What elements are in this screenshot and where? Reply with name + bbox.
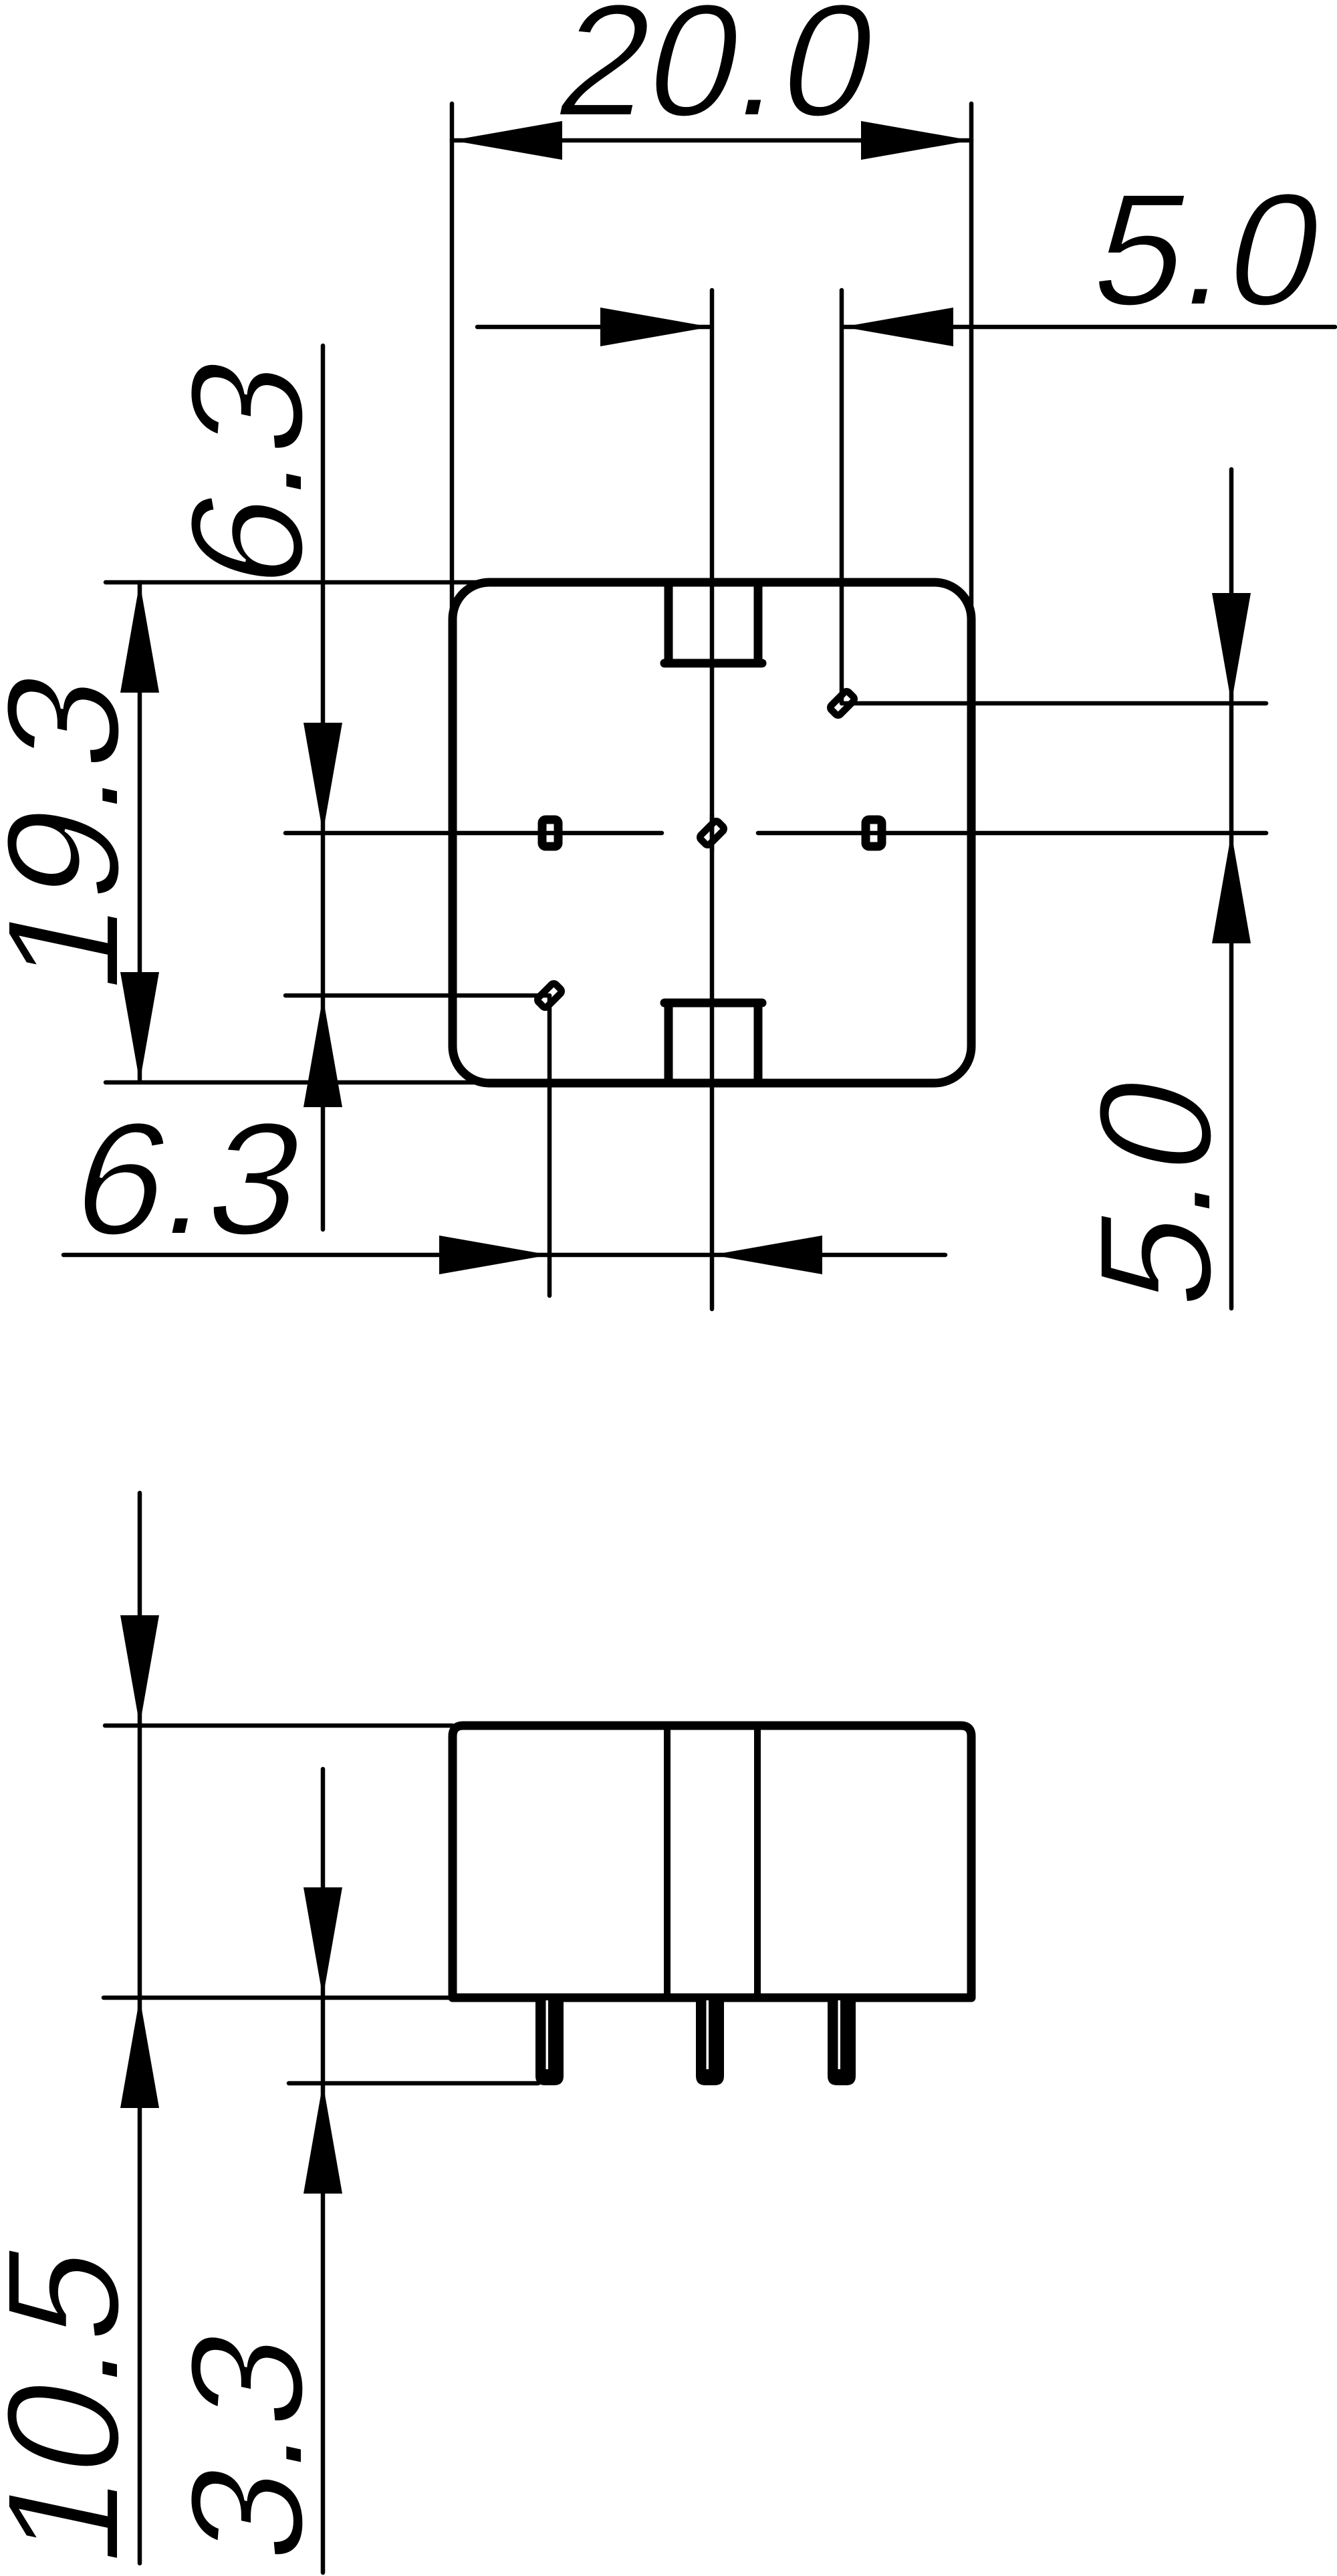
svg-text:5.0: 5.0 [1066,1060,1245,1322]
svg-text:6.3: 6.3 [157,341,336,602]
svg-text:3.3: 3.3 [157,2314,336,2575]
svg-text:5.0: 5.0 [1079,160,1337,339]
svg-text:10.5: 10.5 [0,2228,152,2576]
svg-text:6.3: 6.3 [59,1089,321,1268]
svg-text:19.3: 19.3 [0,655,152,1006]
svg-text:20.0: 20.0 [543,0,894,150]
